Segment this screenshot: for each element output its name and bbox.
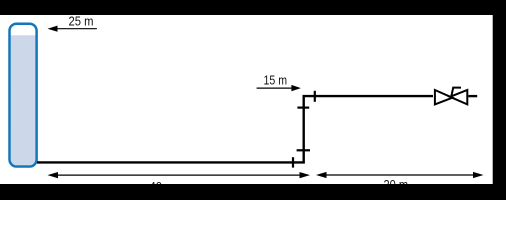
tank water fill: [11, 35, 36, 165]
dimension 20m line: [323, 174, 476, 176]
joint tick on lower pipe: [292, 157, 294, 167]
arrow 15m head: [291, 85, 301, 91]
tank outline: [10, 24, 37, 167]
letterbox bar top: [0, 0, 506, 15]
dimension 20m left head: [316, 172, 327, 178]
valve V1 left triangle: [435, 90, 453, 104]
joint tick on riser top: [297, 106, 309, 108]
arrow 15m leader line: [257, 87, 294, 89]
dimension 20m right head: [473, 172, 484, 178]
letterbox bar bottom: [0, 184, 506, 200]
svg-text:25 m: 25 m: [69, 14, 94, 29]
wire pipe run (lower horizontal, vertical riser, upper horizontal): [37, 96, 433, 162]
letterbox bar right: [493, 0, 506, 200]
dimension 40m left head: [48, 172, 59, 178]
dimension 40m right head: [300, 172, 311, 178]
wire valve outlet stub: [468, 95, 477, 97]
joint tick on upper pipe: [314, 91, 316, 102]
joint tick on riser bottom: [297, 149, 310, 151]
valve V1 handle flag: [451, 88, 461, 97]
arrow 25m head: [48, 26, 58, 32]
arrow 25m leader line: [54, 28, 97, 30]
valve V1 right triangle: [450, 90, 467, 104]
dimension 40m line: [55, 174, 303, 176]
svg-text:15 m: 15 m: [264, 73, 288, 88]
